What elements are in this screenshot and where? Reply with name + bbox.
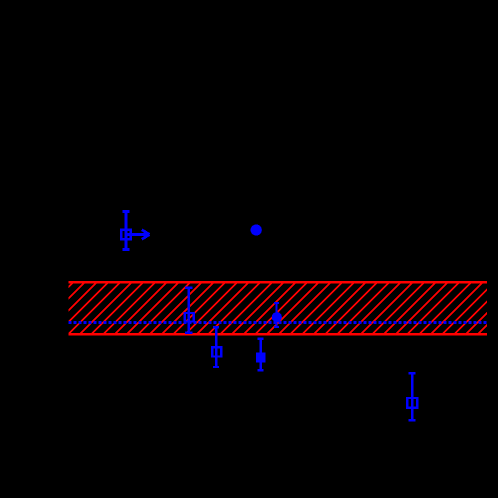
point A error bar — [123, 212, 130, 250]
band bottom border — [69, 333, 488, 336]
band top border — [69, 281, 488, 284]
point A arrow — [126, 230, 150, 240]
point F filled square — [256, 352, 266, 362]
point E open square — [212, 347, 221, 356]
point D filled circle — [272, 312, 282, 322]
point D error bar — [274, 303, 279, 327]
point F error bar — [258, 339, 264, 370]
point C error bar — [185, 288, 193, 333]
point G open square — [407, 398, 417, 408]
point E error bar — [213, 327, 219, 367]
hatched confidence band — [18, 279, 498, 337]
point C open square — [185, 313, 194, 322]
point G error bar — [409, 373, 416, 420]
dotted reference line — [69, 321, 489, 324]
point B filled circle — [251, 224, 262, 235]
point A open square — [121, 230, 130, 239]
